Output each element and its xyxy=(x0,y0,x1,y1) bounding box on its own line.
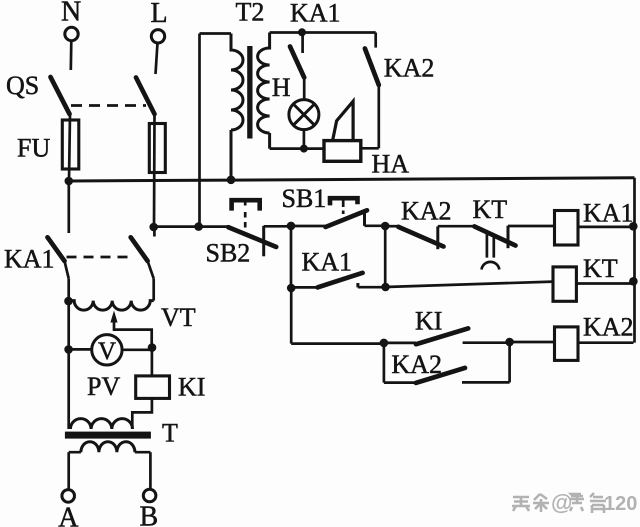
svg-text:KA1: KA1 xyxy=(583,199,634,228)
lamp H xyxy=(289,100,319,130)
node SB1 branch left xyxy=(287,222,296,231)
wire KA2 to buzzer xyxy=(361,147,379,150)
contact KA2 (row1) blade xyxy=(398,227,443,247)
svg-text:QS: QS xyxy=(6,71,39,100)
wire row2 to KT coil xyxy=(386,282,553,287)
svg-text:T: T xyxy=(162,419,178,448)
VT wiper arrow xyxy=(110,311,117,323)
svg-text:H: H xyxy=(272,73,291,102)
svg-text:KT: KT xyxy=(473,195,508,224)
switch QS linkage dashed xyxy=(71,104,146,107)
wire bus1 top xyxy=(69,178,635,181)
wire T secondary leads xyxy=(69,451,151,454)
contact KT delay symbol xyxy=(482,262,500,270)
contact KI blade xyxy=(416,328,468,344)
svg-text:KA2: KA2 xyxy=(391,350,442,379)
svg-text:HA: HA xyxy=(372,149,410,178)
wire voltmeter right xyxy=(122,348,152,351)
relay coil KA1 xyxy=(555,211,579,246)
terminal A xyxy=(62,490,75,503)
node KA1 parallel bottom left xyxy=(287,284,296,293)
wire KT to coil KA1 xyxy=(508,225,555,228)
node fuse-L to bus2 xyxy=(149,223,158,232)
terminal L xyxy=(151,30,164,43)
terminal B xyxy=(143,489,156,502)
node coil KT right xyxy=(629,277,638,286)
svg-text:KA2: KA2 xyxy=(384,54,435,83)
relay coil KA2 xyxy=(555,327,579,361)
wire to voltmeter xyxy=(69,348,92,351)
wire node to KA2 contact xyxy=(385,225,398,228)
node voltmeter left xyxy=(64,345,73,354)
svg-text:KA1: KA1 xyxy=(290,0,341,28)
svg-text:KI: KI xyxy=(178,372,205,401)
switch QS pole L blade xyxy=(136,78,155,115)
svg-text:SB1: SB1 xyxy=(282,184,327,213)
wire KA2 row4 right xyxy=(462,381,510,384)
svg-text:KI: KI xyxy=(415,307,442,336)
wire to terminal A xyxy=(67,452,70,489)
svg-text:T2: T2 xyxy=(236,0,265,27)
node T2 primary to bus1 xyxy=(227,176,236,185)
wire coil KA1 to right edge xyxy=(578,226,634,229)
node lamp branch top xyxy=(298,28,306,36)
wire row3 xyxy=(291,342,384,345)
contact KT (row1) blade xyxy=(474,226,515,245)
wire secondary top xyxy=(270,31,376,34)
wire through fuse L xyxy=(153,114,156,227)
wire secondary bottom xyxy=(270,147,324,150)
node VT left xyxy=(64,297,73,306)
wire N down xyxy=(69,41,72,71)
svg-text:120: 120 xyxy=(604,493,637,515)
contact KT (row1) post xyxy=(507,226,510,249)
wire T2 primary top xyxy=(200,32,232,35)
pushbutton SB1 contact post xyxy=(363,210,366,225)
transformer T2 core xyxy=(247,46,252,139)
svg-text:KT: KT xyxy=(583,254,618,283)
switch QS pole N blade xyxy=(51,77,70,114)
transformer T2 primary winding xyxy=(231,34,243,181)
terminal N xyxy=(65,27,78,40)
svg-text:@: @ xyxy=(551,490,572,515)
wire SB1 to node xyxy=(365,224,386,227)
node coil KA1 right xyxy=(629,222,638,231)
contact KT delay actuator xyxy=(487,234,494,258)
pushbutton SB2 blade xyxy=(228,227,276,247)
wire KA2 to KT contact xyxy=(438,225,475,228)
pushbutton SB2 contact post xyxy=(262,226,265,256)
contact KA2 (row4) blade xyxy=(416,368,465,383)
wire left branch vertical xyxy=(67,279,70,429)
node SB1 branch right xyxy=(381,222,390,231)
wire row3 left vertical xyxy=(290,288,293,344)
contact KA1 main right blade xyxy=(131,237,148,261)
relay coil KI xyxy=(136,376,170,399)
wire node to coil KA2 xyxy=(510,341,555,344)
contact KA2 (row1) post xyxy=(436,226,439,249)
wire coil KT to right edge xyxy=(576,282,633,285)
svg-text:V: V xyxy=(98,338,116,365)
svg-text:L: L xyxy=(151,0,168,29)
pushbutton SB1 blade xyxy=(326,210,368,227)
svg-text:KA1: KA1 xyxy=(302,248,353,277)
node KI row left xyxy=(380,339,389,348)
wire SB2 to node xyxy=(264,225,291,228)
contact KA1 main left blade xyxy=(48,237,65,261)
wire bus2 start xyxy=(154,225,229,228)
svg-text:VT: VT xyxy=(161,303,196,332)
transformer T2 secondary winding xyxy=(258,33,270,149)
svg-text:SB2: SB2 xyxy=(206,239,251,268)
node KI row right xyxy=(505,338,514,347)
pushbutton SB2 cap xyxy=(232,200,260,210)
voltmeter PV xyxy=(92,335,122,365)
contact KA1 main left stub xyxy=(67,181,70,233)
autotransformer VT winding xyxy=(69,301,154,311)
wire KA1 parallel right vertical xyxy=(384,226,387,287)
svg-text:KA2: KA2 xyxy=(401,196,452,225)
node lamp bottom xyxy=(300,145,308,153)
fuse FU pole N xyxy=(62,120,79,169)
contact KA1 main linkage dashed xyxy=(67,256,134,259)
svg-text:B: B xyxy=(140,502,159,527)
wire row4 xyxy=(384,381,416,384)
node fuse-N to bus1 xyxy=(65,177,74,186)
wire mid vertical to KI coil xyxy=(151,348,154,376)
buzzer HA body xyxy=(324,141,361,162)
wire row4 right vertical xyxy=(508,342,511,382)
wire L down xyxy=(156,43,158,74)
wire lamp to bottom xyxy=(303,129,306,149)
svg-text:A: A xyxy=(58,503,79,527)
wire through fuse N xyxy=(69,114,70,181)
node KA1 parallel bottom right xyxy=(381,283,390,292)
svg-text:N: N xyxy=(61,0,81,28)
wire node to KI contact xyxy=(384,342,416,345)
transformer T primary winding xyxy=(70,419,132,429)
pushbutton SB1 cap xyxy=(330,198,358,205)
wire coil KA2 to right edge xyxy=(578,341,634,344)
contact KA1 main right stub xyxy=(153,227,156,237)
contact KA1 (lamp) xyxy=(301,33,304,54)
wire T2 primary left xyxy=(198,34,201,227)
svg-text:FU: FU xyxy=(17,134,50,163)
fuse FU pole L xyxy=(149,124,165,173)
svg-text:PV: PV xyxy=(87,372,120,401)
wire VT right vertical xyxy=(152,279,155,301)
transformer T secondary winding xyxy=(81,442,135,452)
wire KI bottom staircase xyxy=(132,398,152,429)
transformer T core xyxy=(65,432,151,439)
wire to terminal B xyxy=(149,452,152,489)
watermark xyxy=(512,493,606,513)
node wiper to meter wire xyxy=(148,343,157,352)
buzzer HA horn xyxy=(333,101,354,140)
svg-text:KA1: KA1 xyxy=(4,245,55,274)
contact KA1 self-hold xyxy=(291,286,318,289)
node T2 left to bus2 xyxy=(194,222,203,231)
timer coil KT xyxy=(553,267,576,301)
wire KI to node xyxy=(463,341,510,344)
wire right edge vertical xyxy=(633,178,636,343)
wire node to SB1 xyxy=(291,225,328,228)
wire KA1 parallel left vertical xyxy=(290,226,293,288)
svg-text:KA2: KA2 xyxy=(583,312,634,341)
wire row4 left vertical xyxy=(383,343,386,383)
contact KA2 (alarm) xyxy=(374,33,377,48)
